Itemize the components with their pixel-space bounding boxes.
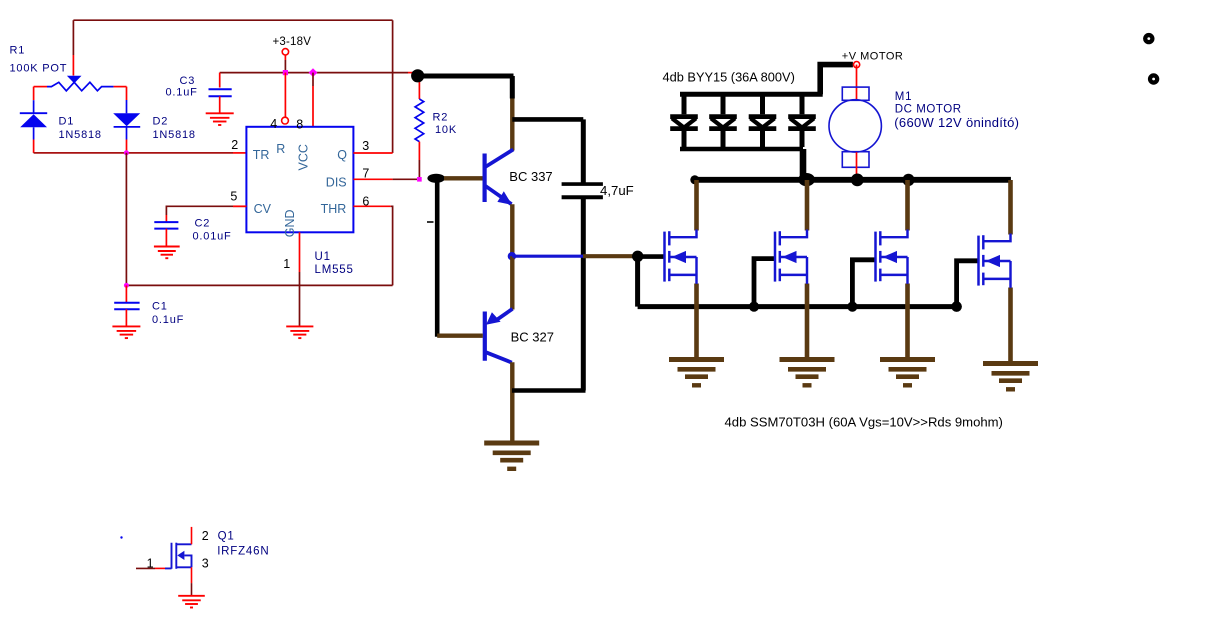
ground C1 [112,325,140,327]
wire wiper vertical (maroon) [72,20,74,55]
wire diode bottom bus [680,147,803,152]
wire D1 to bottom node [33,140,35,153]
ground U1 pin 1 [286,325,313,327]
node VCC thick junction dot [411,69,424,82]
potentiometer R1 wiper arrow [67,76,82,84]
svg-text:1: 1 [147,556,154,570]
svg-text:3: 3 [202,556,209,570]
transistor Q BC327 base bar [483,312,487,361]
transistor BC337 base bar [483,154,487,203]
wire BC327 emitter up lead [510,256,514,309]
stray blue pixel [120,536,122,538]
diode D2 cathode bar [114,126,141,128]
svg-text:+V MOTOR: +V MOTOR [842,50,904,62]
diode BYY15 #1 cathode bar [670,126,698,131]
MOSFET M-A channel segments [668,231,670,245]
wire pin 7 DIS red [353,178,392,180]
wire vcc down black [510,76,515,99]
diode BYY15 #4 cathode bar [788,126,816,131]
svg-text:2: 2 [202,529,209,543]
svg-text:R: R [276,142,285,156]
svg-text:4db SSM70T03H (60A Vgs=10V>>Rd: 4db SSM70T03H (60A Vgs=10V>>Rds 9mohm) [725,415,1003,430]
capacitor C1 plates [114,302,139,304]
wire THR loop horizontal to C1 node [126,284,392,286]
node C1/THR junction dot [124,283,129,288]
svg-text:3: 3 [362,139,369,153]
stray dash [427,221,434,223]
diode D2 bottom lead [126,127,128,140]
node diode feed blob [798,173,815,186]
node vcc/pin4 junction square [283,70,288,75]
wire M-B drain to bus [805,180,810,231]
wire base net vertical black [435,178,440,337]
transistor BC337 emitter arm [486,186,512,204]
wire pin 3 Q output red [353,152,392,154]
MOSFET M-B drain arm [780,230,807,238]
MOSFET M-D body-source tie [1009,261,1011,288]
node riser M4 dot [951,301,962,312]
node motor junction dot [851,174,864,187]
svg-text:100K POT: 100K POT [10,63,68,75]
MOSFET Q1 drain arm [176,543,191,545]
node gate line dot [632,251,643,262]
svg-text:LM555: LM555 [315,264,354,276]
wire diode top bus [680,92,823,97]
capacitor C1 top lead [125,285,127,302]
wire M-C drain to bus [905,180,910,231]
svg-text:C1: C1 [152,301,168,313]
diode BYY15 #3 body sides [751,118,762,127]
node trigger junction dot [124,150,129,155]
wire thick vcc horizontal [418,74,514,79]
MOSFET M-D source arm [983,278,1010,280]
svg-text:BC 327: BC 327 [511,329,554,344]
wire pin 8 vertical red [312,86,314,127]
MOSFET M-B gate bar [774,232,777,282]
diode BYY15 #1 anode bar [670,114,698,119]
svg-text:CV: CV [254,202,272,216]
potentiometer R1 left lead [34,86,47,88]
MOSFET M-B source arm [780,274,807,276]
diode BYY15 #3 bottom lead [760,131,765,147]
svg-text:1N5818: 1N5818 [59,129,102,141]
diode D1 top lead [33,100,35,113]
wire trigger red stub to pin 2 [233,152,246,154]
wire gate bus down [635,256,640,306]
wire Q1 source down maroon [191,583,193,596]
transistor BC337 collector arm [486,150,514,167]
node riser M2 dot [749,302,759,312]
wire vcc down brown to BC337 collector [510,99,514,151]
transistor Q BC337 base wire [444,176,483,180]
svg-text:DIS: DIS [326,176,347,190]
MOSFET M-C gate bar [874,232,877,282]
svg-text:R1: R1 [10,45,26,57]
MOSFET Q1 source arm [176,566,191,568]
svg-text:Q1: Q1 [218,531,235,543]
wire output gate line brown segment [583,254,633,258]
node vcc/pin8 junction diamond [309,68,318,77]
MOSFET M-A source arm [669,274,696,276]
wire vcc rail horizontal [220,72,408,74]
capacitor C3 bottom lead [219,96,221,113]
svg-text:0.01uF: 0.01uF [193,231,232,243]
ground M-B [780,357,835,362]
resistor R2 top lead [418,78,420,99]
MOSFET M-C body-source tie [906,257,908,284]
diode BYY15 #3 anode bar [749,114,777,119]
svg-text:VCC: VCC [297,144,311,170]
MOSFET M-D channel segments [982,235,984,249]
wire capacitor top lead [581,119,586,184]
motor M1 top terminal box [842,87,869,100]
MOSFET M-D drain arm [983,234,1010,242]
wire BC327 base wire brown [437,334,483,338]
wire pin 5 red stub [233,205,246,207]
MOSFET M-D body arm with arrow [983,260,1010,262]
MOSFET M-B body-source tie [806,257,808,284]
wire M-A drain to bus [694,180,699,231]
MOSFET M-A body-source tie [695,257,697,284]
MOSFET M-C channel segments [879,231,881,245]
wire diode bus up corner [820,65,853,95]
wire vcc branch to capacitor [512,117,583,122]
node bus left dot [690,175,699,184]
ground BC327 [484,441,539,446]
capacitor 4,7uF bottom lead [581,197,586,390]
diode D1 bottom lead [33,127,35,139]
svg-text:1: 1 [283,257,290,271]
diode BYY15 #1 bottom lead [682,131,687,147]
MOSFET M-D gate bar [977,236,980,286]
capacitor C2 plates [154,221,178,223]
svg-text:Q: Q [337,148,347,162]
svg-text:TR: TR [253,148,270,162]
MOSFET M-C body arm with arrow [880,256,907,258]
capacitor C1 bottom lead [125,309,127,326]
diode BYY15 #3 top lead [760,96,765,114]
wire gate riser M3 [852,260,876,307]
wire gate riser M4 [957,261,979,307]
terminal +3-18V circle [282,49,288,55]
svg-text:BC 337: BC 337 [509,169,552,184]
terminal +V MOTOR circle [854,62,860,68]
node riser M3 dot [847,302,857,312]
resistor R2 bottom lead maroon [418,160,420,179]
potentiometer R1 right lead [114,86,127,88]
MOSFET M-C drain arm [880,230,907,238]
wire M-D drain to bus [1008,180,1013,235]
wire D2 branch corner [126,87,128,100]
wire pin 4 vertical [284,73,286,118]
MOSFET Q1 gate bar [165,543,172,569]
svg-text:4db BYY15 (36A 800V): 4db BYY15 (36A 800V) [663,69,795,84]
wire BC327 collector down [510,362,514,443]
wire motor top lead [856,65,858,100]
svg-text:7: 7 [362,166,369,180]
svg-text:2: 2 [231,138,238,152]
diode BYY15 #1 top lead [682,96,687,114]
svg-text:GND: GND [283,209,297,237]
diode D1 cathode bar [20,112,47,114]
wire motor bottom lead [856,152,858,177]
diode BYY15 #4 body sides [790,118,801,127]
svg-text:4: 4 [270,117,277,131]
diode BYY15 #1 body sides [672,118,683,127]
svg-text:8: 8 [296,117,303,131]
page dot lower [1148,73,1159,84]
svg-text:U1: U1 [315,251,331,263]
wire BC337 emitter down to output node [510,204,514,256]
MOSFET Q1 body arrow [177,551,184,560]
svg-text:0.1uF: 0.1uF [152,314,184,326]
svg-text:THR: THR [321,202,347,216]
wire Q1 drain up red [191,527,193,544]
MOSFET M-B body arm with arrow [780,256,807,258]
wire output gate line blue [512,255,583,258]
potentiometer R1 body zigzag [47,82,114,91]
ground M-C [880,357,935,362]
wire pin 6 THR red stub [353,205,390,207]
MOSFET M-A drain arm [669,230,696,238]
wire Q1 gate maroon [136,567,155,569]
node DIS/R2 junction square [417,177,422,182]
MOSFET M-C source arm [880,274,907,276]
motor M1 circle [829,100,881,152]
wire pin 1 maroon [299,272,301,326]
wire trigger node down to C1 node [125,153,127,286]
wire M-C source to ground [905,284,910,361]
diode D2 body [113,113,140,126]
svg-text:C2: C2 [195,218,211,230]
wire Q1 source down red [191,567,193,583]
svg-text:(660W 12V önindító): (660W 12V önindító) [894,115,1019,130]
ground Q1 [178,595,205,597]
capacitor C2 bottom lead [165,229,167,247]
diode D1 body [20,114,47,127]
motor M1 bottom terminal box [842,152,869,168]
transistor BC327 emitter arm [495,309,513,321]
capacitor C3 plates [209,88,232,90]
diode BYY15 #2 body sides [711,118,722,127]
MOSFET M-A gate bar [663,232,666,282]
ground M-D [983,361,1038,366]
wire gate riser M2 [754,259,776,307]
MOSFET M-B channel segments [779,231,781,245]
svg-text:4,7uF: 4,7uF [600,183,634,198]
wire feedback vertical to pin 3 [392,20,394,153]
svg-text:M1: M1 [895,91,913,103]
wire pin 8 vertical maroon [312,73,314,86]
diode BYY15 #4 anode bar [788,114,816,119]
ground C2 [154,246,180,248]
wire M-B source to ground [805,284,810,361]
resistor R2 bottom lead red [418,142,420,160]
node output blue dot [508,252,516,260]
capacitor C2 top lead [165,215,167,222]
diode BYY15 #2 bottom lead [721,131,726,147]
transistor BC327 emitter arrow [486,312,501,325]
page dot upper [1143,33,1154,44]
svg-text:5: 5 [230,190,237,204]
wire diode block feed down [800,149,807,176]
wire D1 branch corner [33,87,35,101]
wire gate bus horizontal [638,304,957,309]
wire D2 to bottom node [126,140,128,151]
capacitor C3 top lead [219,73,221,88]
svg-text:C3: C3 [180,75,196,87]
wire M-D source to ground [1008,288,1013,365]
diode BYY15 #3 cathode bar [749,126,777,131]
pin 4 open circle [282,117,289,124]
wire terminal to vcc rail [284,60,286,73]
svg-text:0.1uF: 0.1uF [166,87,198,99]
node base net blob [427,174,445,183]
capacitor 4,7uF plates [562,182,603,186]
node M3 drain junction dot [902,174,914,186]
diode D2 top lead [126,100,128,113]
wire THR loop down [391,206,393,285]
op-amp U1 LM555 body [246,127,353,233]
svg-text:1N5818: 1N5818 [153,129,196,141]
wire main drain bus [694,177,1011,183]
svg-text:DC MOTOR: DC MOTOR [895,103,962,115]
ground C3 [206,112,234,114]
svg-text:R2: R2 [433,112,449,124]
diode BYY15 #2 cathode bar [709,126,737,131]
diode BYY15 #2 anode bar [709,114,737,119]
wire vcc rail red end [408,72,415,74]
transistor BC337 emitter arrow [497,191,512,205]
wire M-A source to ground [694,284,699,361]
svg-text:+3-18V: +3-18V [273,36,312,48]
wire terminal stub [284,55,286,60]
svg-text:10K: 10K [435,124,457,136]
resistor R2 body zigzag [415,99,424,142]
wire cap to BC327 collector [512,388,586,393]
wire Q1 gate red [155,567,165,569]
wire pin 1 red [299,232,301,272]
MOSFET M-A body arm with arrow [669,256,696,258]
wire gate line dot to M1 [638,254,665,259]
wire wiper vertical (red) [72,55,74,76]
diode BYY15 #4 top lead [800,96,805,114]
wire pin 7 DIS maroon [393,178,417,180]
MOSFET Q1 channel bar [175,543,177,569]
wire bottom trigger net horizontal [34,152,233,154]
svg-text:IRFZ46N: IRFZ46N [217,546,269,558]
svg-text:D1: D1 [59,116,75,128]
diode BYY15 #4 bottom lead [800,131,805,147]
wire pin 5 maroon [166,206,246,215]
wire top feedback rail [73,19,392,21]
svg-text:D2: D2 [153,116,169,128]
diode BYY15 #2 top lead [721,96,726,114]
transistor BC327 collector arm [486,352,512,362]
ground M-A [669,357,724,362]
MOSFET Q1 body arm [184,555,191,567]
